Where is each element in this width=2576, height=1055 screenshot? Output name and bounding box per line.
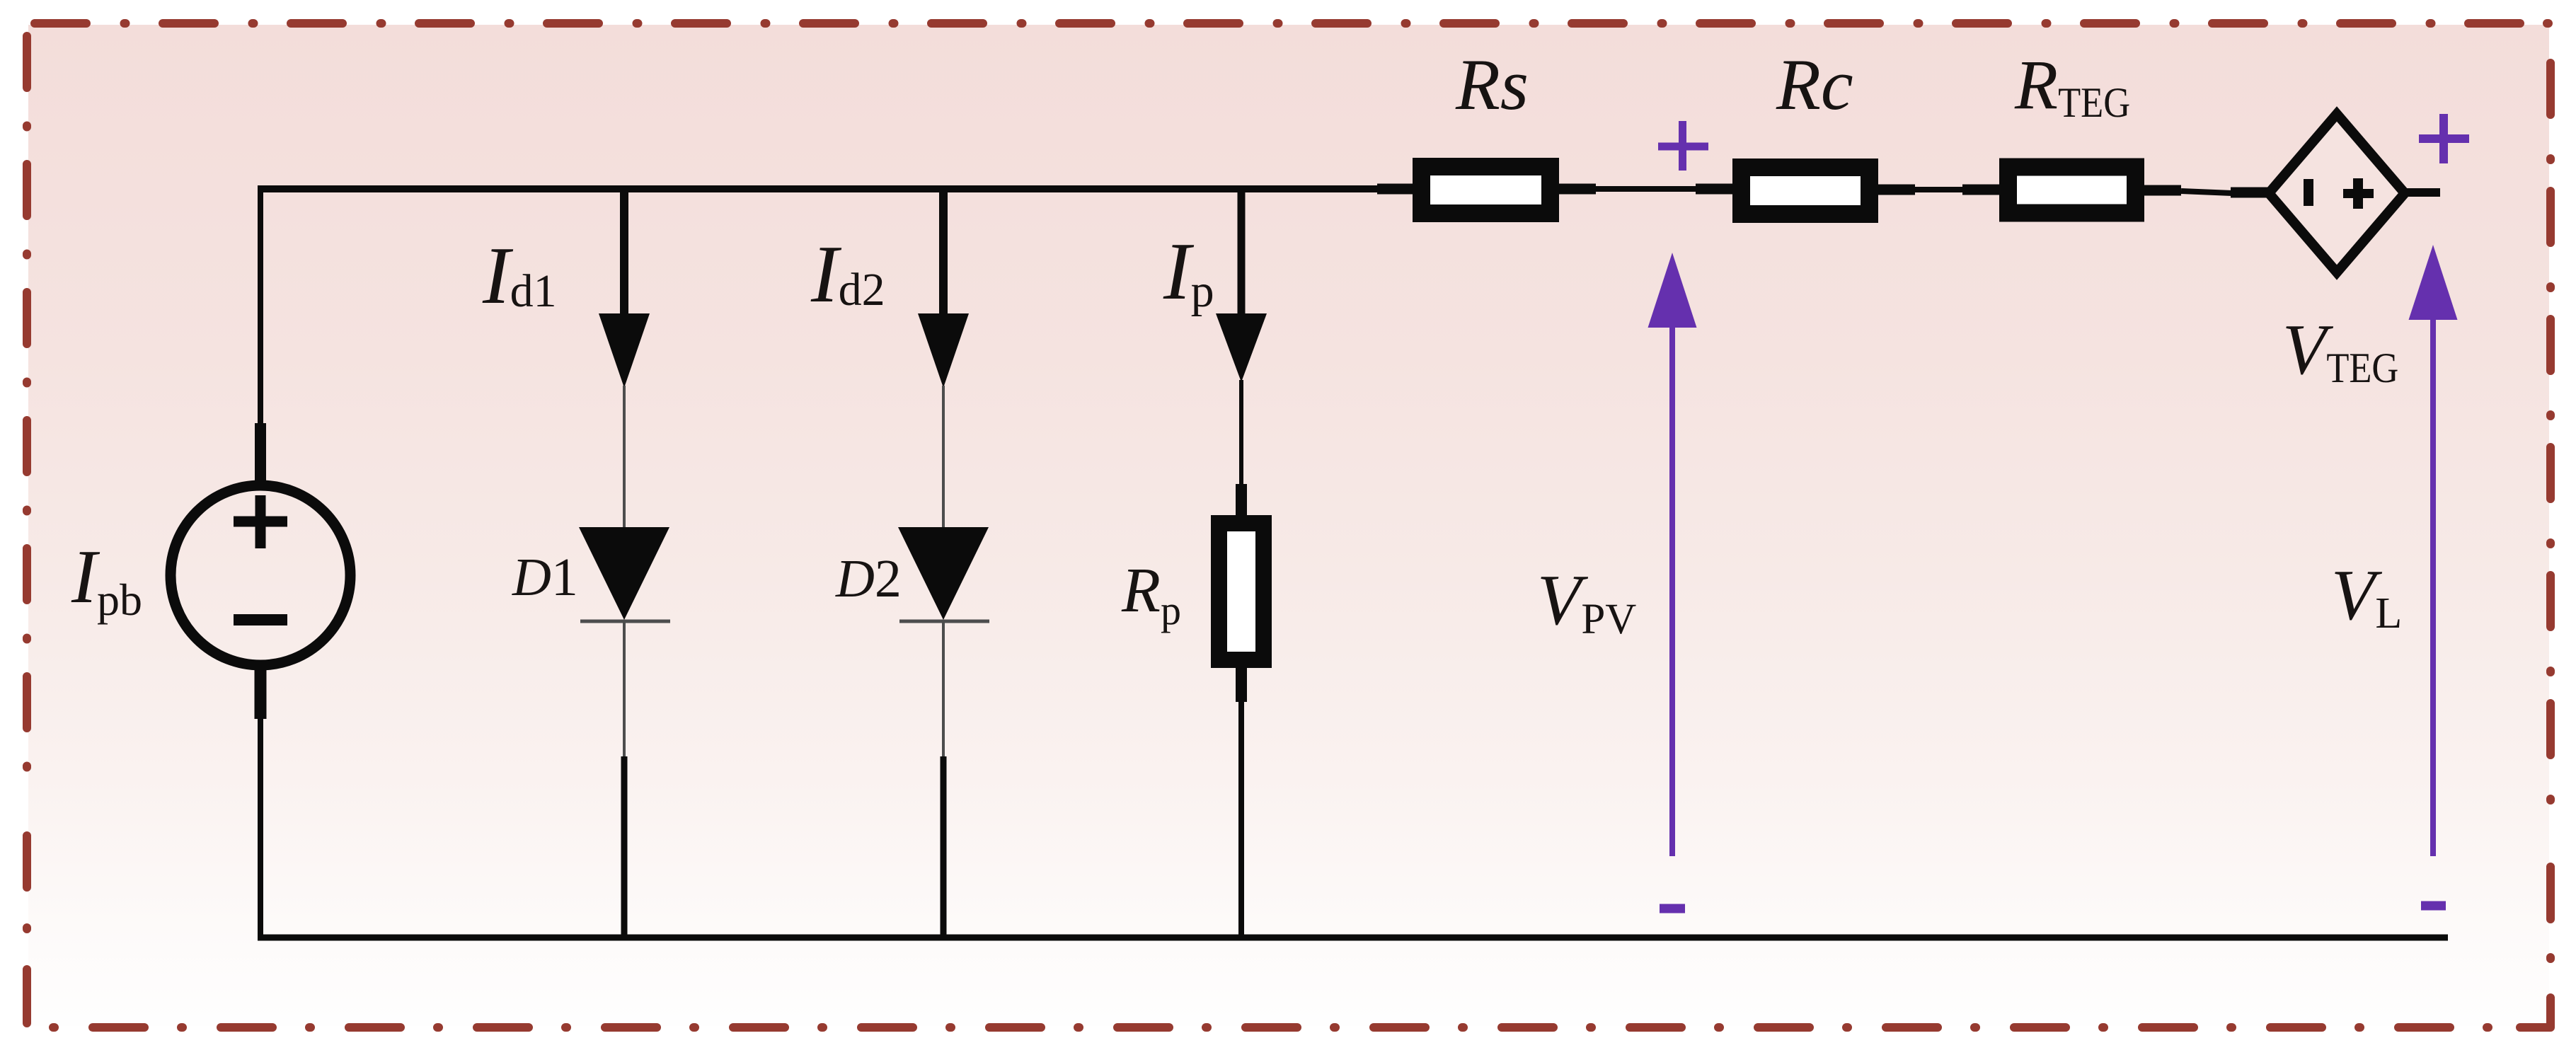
wire: Ipb bottom lead bbox=[255, 669, 267, 940]
dependent source U1 bbox=[2269, 114, 2405, 272]
label VL bbox=[2331, 555, 2402, 638]
label Rp bbox=[1121, 555, 1181, 633]
resistor RTEG bbox=[2008, 167, 2136, 213]
wire: U1 output lead bbox=[2403, 188, 2440, 197]
label VPV bbox=[1537, 560, 1636, 643]
svg-text:Rs: Rs bbox=[1455, 45, 1529, 125]
voltage annotation VTEG plus bbox=[2419, 114, 2469, 163]
voltage annotation VTEG arrow bbox=[2409, 245, 2458, 856]
label D1 bbox=[512, 548, 578, 607]
label Ip bbox=[1163, 226, 1214, 317]
voltage annotation VPV minus bbox=[1660, 904, 1685, 913]
wire: Rs to Rc bbox=[1559, 184, 1734, 195]
diode D1 bbox=[579, 386, 670, 756]
label Id2 bbox=[810, 229, 885, 320]
label Ipb bbox=[71, 535, 142, 625]
voltage annotation VL minus bbox=[2421, 901, 2446, 911]
current arrow Ip bbox=[1216, 185, 1267, 382]
svg-text:D2: D2 bbox=[835, 549, 902, 609]
wire: D1 branch bottom bbox=[621, 756, 628, 940]
resistor Rc bbox=[1742, 168, 1870, 214]
voltage annotation VPV plus bbox=[1658, 121, 1708, 171]
wire: D2 branch bottom bbox=[941, 756, 947, 940]
current arrow Id2 bbox=[918, 185, 969, 388]
current arrow Id1 bbox=[599, 185, 650, 388]
wire: RTEG to source U1 bbox=[2144, 190, 2270, 193]
wire: top rail bbox=[258, 185, 1414, 192]
svg-text:Rc: Rc bbox=[1776, 45, 1853, 125]
wire: bottom rail bbox=[258, 935, 2448, 941]
label RTEG bbox=[2014, 45, 2130, 126]
voltage annotation VPV arrow bbox=[1648, 253, 1697, 856]
resistor Rs bbox=[1422, 167, 1551, 214]
wire: Rp bottom lead bbox=[1236, 668, 1247, 940]
wire: left vertical from top rail to Ipb bbox=[258, 185, 263, 484]
label Id1 bbox=[482, 231, 557, 321]
current source Ipb bbox=[171, 485, 350, 665]
label VTEG bbox=[2282, 310, 2398, 391]
wire: Ip arrow to Rp bbox=[1239, 380, 1243, 517]
label Rs bbox=[1455, 45, 1529, 125]
label D2 bbox=[835, 549, 902, 609]
svg-text:D1: D1 bbox=[512, 548, 578, 607]
diode D2 bbox=[898, 386, 989, 756]
label Rc bbox=[1776, 45, 1853, 125]
resistor Rp bbox=[1219, 524, 1264, 660]
wire: Rc to RTEG bbox=[1878, 185, 2001, 195]
